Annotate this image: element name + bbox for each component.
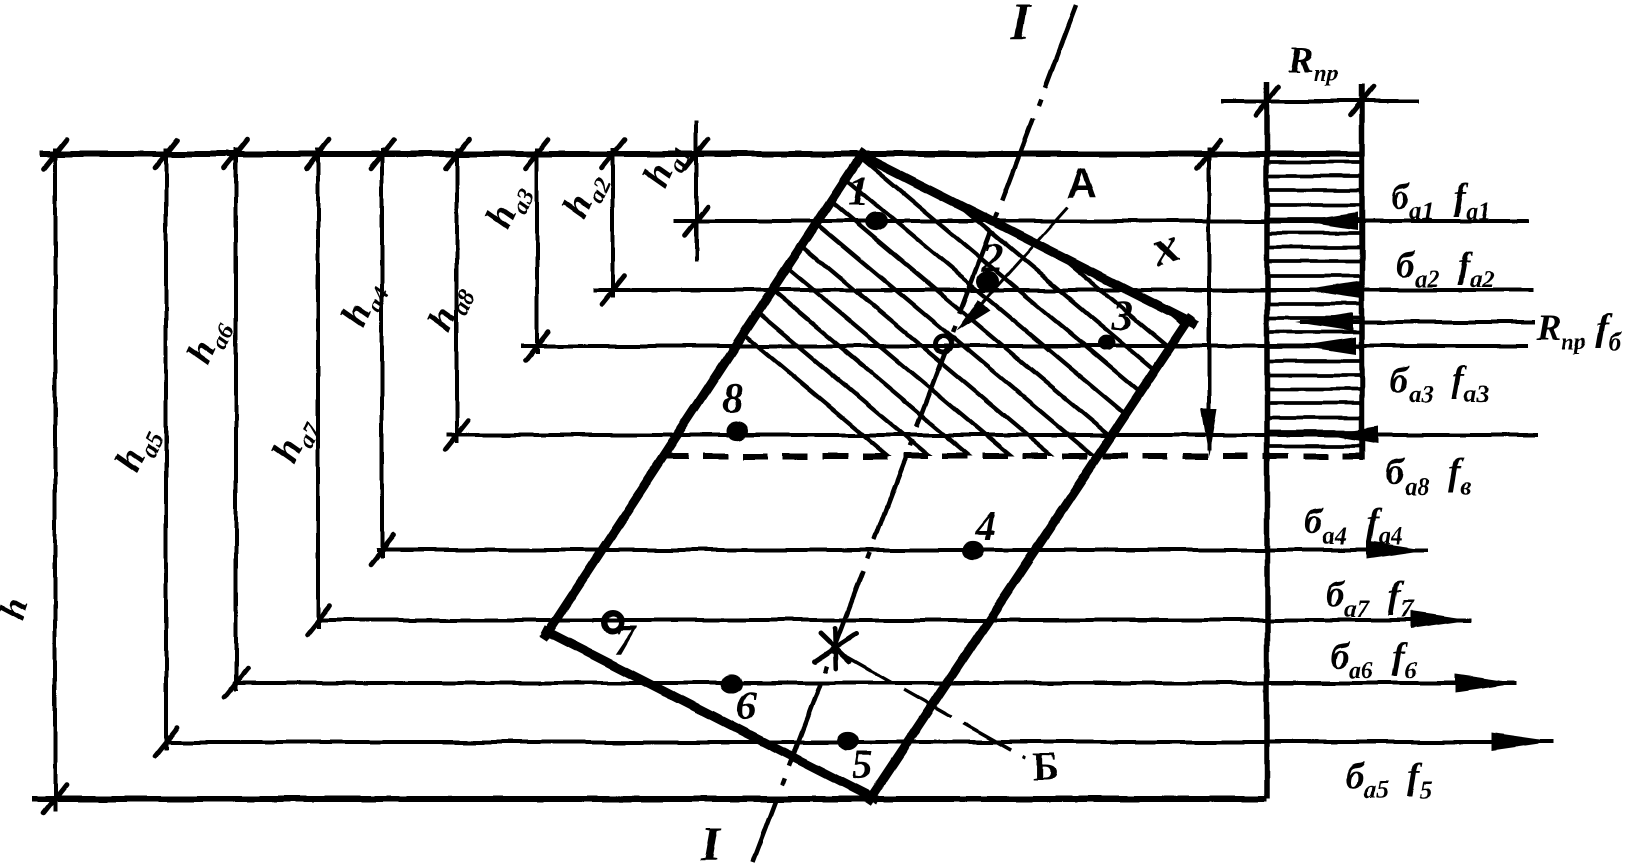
bar-6 level line / sigma_a6 line [233, 681, 1517, 685]
bar-1 level line / sigma_a1 line [674, 219, 1529, 223]
bar 5 dot [837, 731, 859, 750]
bar 3 dot [1098, 335, 1116, 351]
dimension line h_a7 vertical [316, 148, 320, 628]
bar 4 dot [962, 541, 984, 560]
svg-text:Б: Б [1032, 744, 1058, 789]
svg-text:I: I [700, 815, 722, 863]
tick h_a7 top [307, 140, 330, 169]
tick h_a4 bottom [371, 536, 394, 565]
bar 7 open circle [603, 613, 621, 631]
tick h_a3 top [526, 140, 549, 169]
arrow sigma_a8 [1328, 426, 1378, 444]
tick h_a1 bottom [685, 207, 708, 236]
svg-text:7: 7 [614, 618, 637, 664]
bar-7 level line / sigma_a7 line [317, 618, 1472, 622]
tick h_a5 bottom [155, 728, 178, 757]
bar 8 dot [726, 421, 748, 440]
dimension line h_a3 vertical [535, 148, 539, 354]
tick h_a5 top [155, 140, 178, 169]
dimension line h_a5 vertical [164, 148, 168, 750]
stress block right edge [1359, 84, 1365, 460]
svg-text:ба8 fв: ба8 fв [1386, 452, 1471, 500]
point a open circle [935, 336, 951, 352]
bottom reference line [32, 796, 1267, 802]
tick h_a1 top [685, 140, 708, 169]
tick h top [44, 140, 67, 169]
arrow sigma_a1 [1300, 212, 1358, 230]
svg-text:5: 5 [852, 743, 873, 789]
tick h_a2 bottom [602, 276, 625, 305]
cross-section bottom-left edge [543, 629, 878, 800]
cross-section right-bottom edge [867, 316, 1192, 804]
arrow R_pr f_b [1295, 313, 1353, 331]
svg-text:ба6 f6: ба6 f6 [1330, 636, 1417, 684]
centroid asterisk [815, 628, 856, 668]
tick h_a6 bottom [225, 669, 248, 698]
tick h_a4 top [371, 140, 394, 169]
tick h_a2 top [602, 140, 625, 169]
bar 2 dot [977, 271, 999, 290]
leader line A [965, 207, 1068, 322]
svg-text:A: A [1066, 160, 1096, 207]
R_pr dimension line [1221, 99, 1418, 103]
cross-section top-right edge [857, 153, 1197, 325]
bar-3 level line / sigma_a3 line [521, 344, 1529, 348]
arrowhead sigma_a4 [1366, 541, 1428, 559]
arrowhead sigma_a7 [1410, 611, 1472, 629]
stress block left edge / datum line [1264, 82, 1270, 799]
x dimension line [1207, 147, 1211, 450]
neutral axis dashed line [663, 453, 1362, 459]
stress block horizontal hatching [1267, 162, 1362, 446]
leader line B dashed [845, 656, 1025, 758]
svg-text:8: 8 [722, 376, 743, 422]
arrow x dimension bottom [1201, 408, 1217, 456]
tick R_pr left [1256, 87, 1279, 116]
svg-text:ба5 f5: ба5 f5 [1345, 756, 1432, 804]
top reference line [40, 151, 1362, 157]
svg-text:3: 3 [1111, 294, 1133, 340]
arrowhead A leader [956, 299, 990, 331]
svg-text:1: 1 [848, 169, 869, 215]
bar 1 dot [865, 211, 887, 230]
bar-8 level line / sigma_a8 line [446, 433, 1539, 437]
dimension line h_a6 vertical [234, 148, 238, 691]
bar-4 level line / sigma_a4 line [376, 548, 1428, 552]
bar-2 level line / sigma_a2 line [593, 288, 1533, 292]
section line I-I [753, 5, 1076, 862]
svg-text:4: 4 [974, 504, 996, 550]
tick h_a8 top [446, 140, 469, 169]
bar-5 level line / sigma_a5 line [164, 740, 1553, 744]
compression zone hatching [500, 130, 1643, 470]
tick h bottom [44, 785, 67, 814]
tick R_pr right [1351, 87, 1374, 116]
cross-section left-top edge [544, 150, 865, 639]
arrowhead sigma_a5 [1491, 733, 1553, 751]
dimension line h_a8 vertical [455, 148, 459, 443]
R_pr f_b resultant line [1300, 320, 1535, 324]
tick h_a8 bottom [446, 421, 469, 450]
tick h_a7 bottom [307, 606, 330, 635]
arrow sigma_a2 [1303, 281, 1361, 299]
dimension line h vertical [53, 148, 57, 812]
dimension line h_a4 vertical [380, 148, 384, 558]
svg-text:2: 2 [981, 236, 1003, 282]
tick h_a3 bottom [526, 332, 549, 361]
bar 6 dot [721, 674, 743, 693]
arrowhead sigma_a6 [1455, 674, 1517, 692]
dimension line h_a1 vertical [694, 120, 698, 261]
tick h_a6 top [225, 140, 248, 169]
svg-text:6: 6 [736, 684, 757, 730]
tick x top [1198, 140, 1221, 169]
dimension line h_a2 vertical [611, 148, 615, 298]
svg-text:I: I [1010, 0, 1032, 49]
arrow sigma_a3 [1298, 337, 1356, 355]
